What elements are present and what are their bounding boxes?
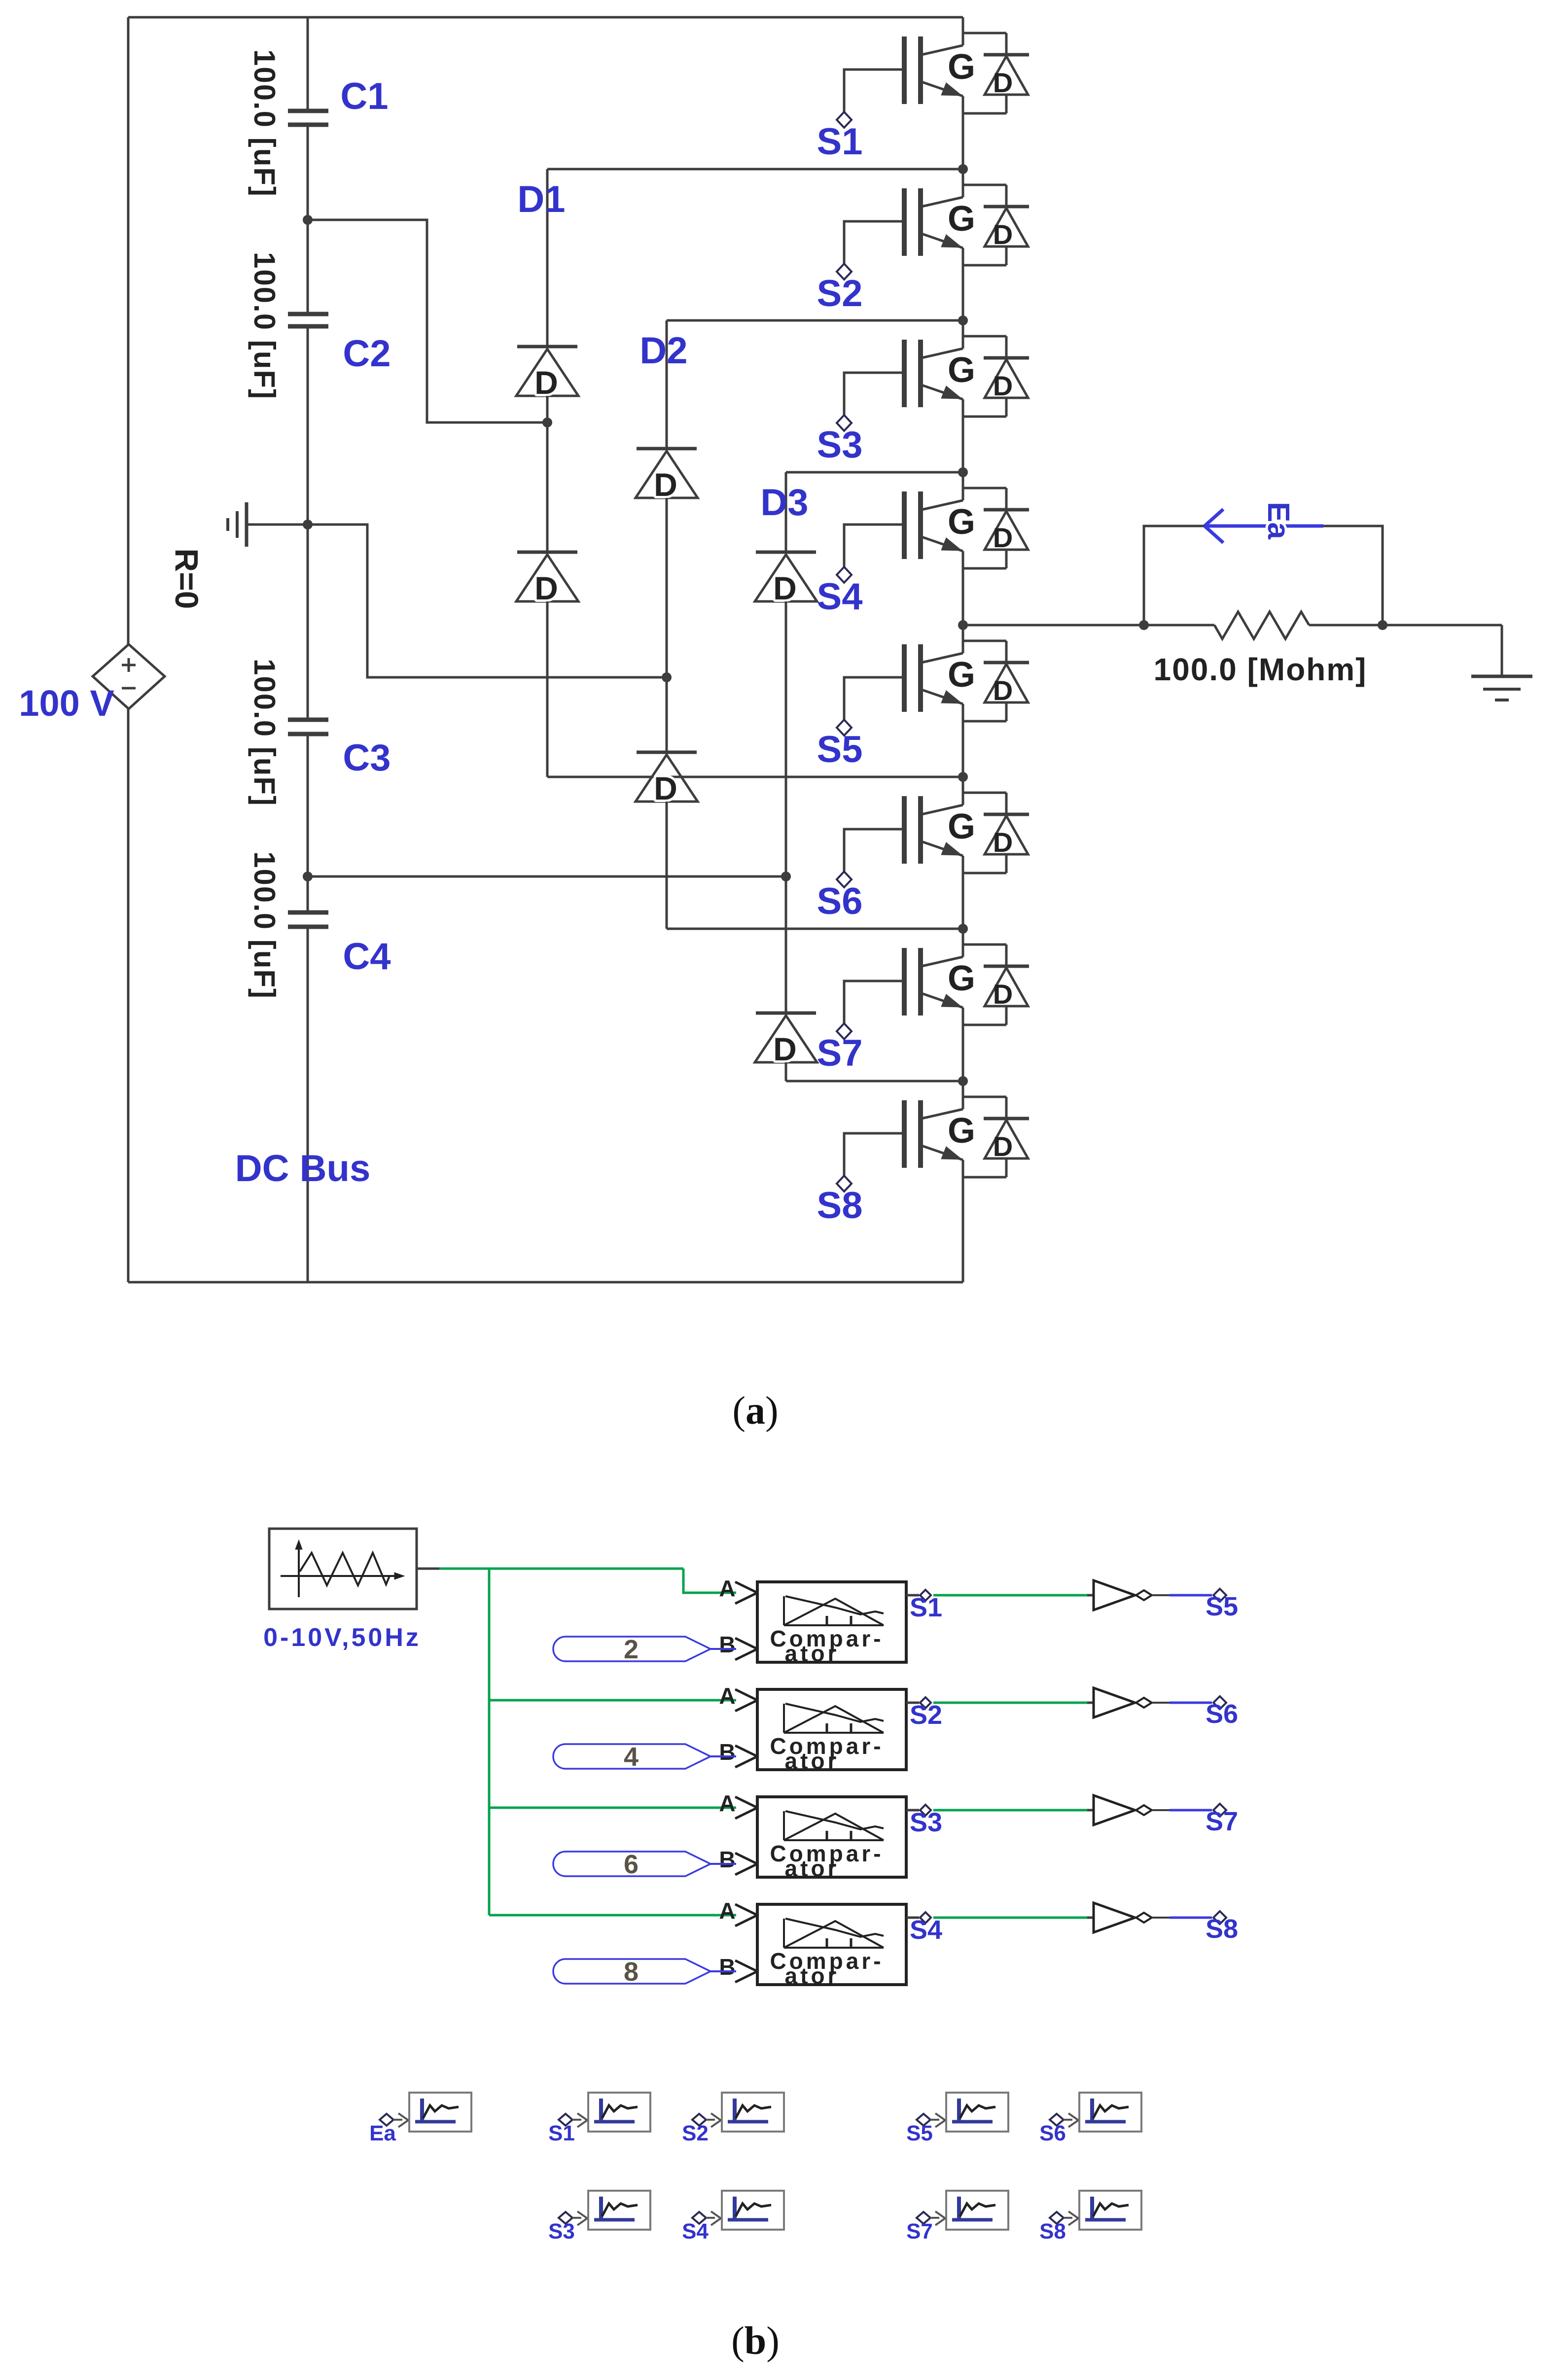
svg-text:S7: S7 bbox=[906, 2219, 933, 2243]
label DC Bus bbox=[235, 1148, 370, 1190]
label D1 bbox=[517, 178, 565, 220]
svg-text:D: D bbox=[993, 979, 1013, 1010]
scope Ea bbox=[369, 2093, 471, 2145]
wire D1 column bottom to S5-S6 node bbox=[547, 601, 963, 777]
svg-text:S5: S5 bbox=[817, 729, 863, 770]
svg-text:A: A bbox=[719, 1898, 735, 1924]
terminal S4 bbox=[817, 567, 863, 618]
wire bottom DC bus bbox=[128, 1281, 963, 1284]
node D2-neutral tap bbox=[662, 672, 672, 682]
input A comparator 4 bbox=[719, 1898, 757, 1926]
svg-text:G: G bbox=[948, 655, 975, 695]
wire D3 top to S3-S4 node bbox=[786, 472, 963, 552]
svg-text:B: B bbox=[719, 1632, 735, 1657]
clamp diode D1 lower bbox=[516, 552, 578, 606]
svg-text:S4: S4 bbox=[817, 576, 863, 618]
svg-text:S2: S2 bbox=[910, 1700, 942, 1730]
wire Ea measurement loop bbox=[1144, 526, 1383, 625]
node junction S4-S5 bbox=[958, 620, 968, 630]
IGBT S3 symbol bbox=[904, 340, 975, 407]
wire carrier green distribution bbox=[439, 1569, 736, 1915]
input B comparator 3 bbox=[719, 1847, 757, 1875]
wire gate S6 bbox=[844, 829, 904, 872]
wire gate S7 bbox=[844, 981, 904, 1024]
svg-text:100.0 [uF]: 100.0 [uF] bbox=[248, 659, 281, 806]
wire gate S8 bbox=[844, 1133, 904, 1176]
wire gate S3 bbox=[844, 373, 904, 416]
node neutral (ground) on bus bbox=[303, 520, 313, 529]
antiparallel diode of S7 bbox=[963, 945, 1029, 1025]
terminal S5 bbox=[817, 720, 863, 770]
svg-text:D2: D2 bbox=[639, 330, 687, 372]
output S4 of comparator 4 bbox=[906, 1912, 1094, 1945]
svg-text:D: D bbox=[993, 675, 1013, 706]
svg-text:2: 2 bbox=[624, 1635, 639, 1664]
scope S6 bbox=[1039, 2093, 1141, 2145]
svg-text:S1: S1 bbox=[817, 121, 863, 163]
svg-text:4: 4 bbox=[624, 1742, 639, 1772]
clamp diode D2 upper bbox=[636, 449, 698, 503]
node junction S7-S8 bbox=[958, 1076, 968, 1086]
svg-text:D: D bbox=[773, 570, 797, 606]
output S1 of comparator 1 bbox=[906, 1590, 1094, 1622]
constant 8 bbox=[553, 1957, 736, 1987]
wire D2 column bottom to S6-S7 node bbox=[667, 802, 963, 929]
svg-text:DC Bus: DC Bus bbox=[235, 1148, 370, 1190]
wire gate S5 bbox=[844, 677, 904, 720]
constant 4 bbox=[553, 1742, 736, 1772]
svg-text:100 V: 100 V bbox=[19, 683, 114, 724]
triangle wave generator 0-10V 50Hz bbox=[269, 1529, 439, 1609]
label 0-10V,50Hz bbox=[263, 1623, 421, 1652]
wire D3 column mid bbox=[785, 601, 787, 1013]
wire gate S2 bbox=[844, 221, 904, 264]
IGBT S7 collector-emitter line bbox=[922, 929, 963, 1081]
svg-text:A: A bbox=[719, 1790, 735, 1816]
terminal S1 bbox=[817, 112, 863, 163]
svg-text:D: D bbox=[654, 466, 677, 503]
input B comparator 4 bbox=[719, 1954, 757, 1982]
constant 2 bbox=[553, 1635, 736, 1664]
capacitor C4 bbox=[248, 851, 391, 999]
svg-text:S3: S3 bbox=[817, 424, 863, 466]
ground load bbox=[1471, 625, 1532, 700]
svg-text:8: 8 bbox=[624, 1957, 639, 1987]
IGBT S4 collector-emitter line bbox=[922, 472, 963, 625]
ground neutral bbox=[228, 502, 308, 547]
svg-text:C1: C1 bbox=[340, 75, 388, 117]
IGBT S8 collector-emitter line bbox=[922, 1081, 963, 1282]
wire D2 column mid bbox=[666, 498, 668, 752]
scope S1 bbox=[548, 2093, 650, 2145]
comparator 4 bbox=[757, 1904, 906, 1989]
svg-text:S6: S6 bbox=[817, 880, 863, 922]
svg-text:ator: ator bbox=[785, 1641, 840, 1666]
clamp diode D2 lower bbox=[636, 752, 698, 806]
svg-text:G: G bbox=[948, 959, 975, 998]
clamp diode D3 lower bbox=[755, 1013, 817, 1067]
inverter to S7 bbox=[1094, 1795, 1238, 1836]
svg-text:S4: S4 bbox=[682, 2219, 709, 2243]
svg-text:A: A bbox=[719, 1575, 735, 1601]
wire C1-C2 midpoint to D1 column bbox=[308, 220, 547, 422]
terminal S6 bbox=[817, 872, 863, 922]
input A comparator 2 bbox=[719, 1683, 757, 1711]
svg-text:S5: S5 bbox=[1206, 1592, 1238, 1621]
wire capacitor bus bbox=[307, 17, 309, 1282]
svg-text:S1: S1 bbox=[548, 2121, 575, 2145]
node D3-C3C4 tap bbox=[781, 872, 791, 881]
IGBT S8 symbol bbox=[904, 1100, 975, 1168]
svg-text:100.0 [uF]: 100.0 [uF] bbox=[248, 49, 281, 197]
input A comparator 1 bbox=[719, 1575, 757, 1604]
svg-text:G: G bbox=[948, 47, 975, 87]
current label Ea with arrow bbox=[1205, 502, 1323, 543]
label D2 bbox=[639, 330, 687, 372]
node junction S2-S3 bbox=[958, 315, 968, 325]
svg-text:D: D bbox=[534, 570, 558, 606]
node load right bbox=[1378, 620, 1387, 630]
scope S4 bbox=[682, 2191, 784, 2243]
wire left border bbox=[127, 17, 130, 1282]
comparator 3 bbox=[757, 1797, 906, 1881]
svg-text:D: D bbox=[654, 770, 677, 806]
IGBT S5 symbol bbox=[904, 644, 975, 712]
IGBT S4 symbol bbox=[904, 491, 975, 559]
comparator 1 bbox=[757, 1582, 906, 1666]
svg-text:100.0 [uF]: 100.0 [uF] bbox=[248, 851, 281, 999]
inverter to S8 bbox=[1094, 1903, 1238, 1944]
input B comparator 1 bbox=[719, 1632, 757, 1660]
label 100.0 [Mohm] bbox=[1154, 652, 1367, 687]
svg-text:D1: D1 bbox=[517, 178, 565, 220]
svg-text:G: G bbox=[948, 807, 975, 846]
svg-text:R=0: R=0 bbox=[169, 549, 205, 609]
clamp diode D3 upper bbox=[755, 552, 817, 606]
scope S5 bbox=[906, 2093, 1008, 2145]
svg-text:ator: ator bbox=[785, 1963, 840, 1989]
svg-text:S2: S2 bbox=[817, 273, 863, 315]
svg-text:S1: S1 bbox=[910, 1593, 942, 1622]
svg-text:D: D bbox=[534, 364, 558, 401]
input A comparator 3 bbox=[719, 1790, 757, 1819]
scope S8 bbox=[1039, 2191, 1141, 2243]
resistor R load bbox=[1214, 612, 1309, 639]
wire D1 column mid bbox=[546, 396, 549, 552]
svg-text:D: D bbox=[993, 67, 1013, 98]
svg-text:D: D bbox=[993, 370, 1013, 401]
inverter to S5 bbox=[1094, 1580, 1238, 1621]
terminal S3 bbox=[817, 415, 863, 466]
svg-text:S5: S5 bbox=[906, 2121, 933, 2145]
comparator 2 bbox=[757, 1689, 906, 1774]
wire D3 column bottom to S7-S8 node bbox=[786, 1062, 963, 1081]
node junction S1-S2 bbox=[958, 164, 968, 174]
svg-text:G: G bbox=[948, 199, 975, 239]
node C1-C2 midpoint bbox=[303, 215, 313, 225]
wire D2 top to S2-S3 node bbox=[667, 320, 963, 449]
IGBT S2 collector-emitter line bbox=[922, 169, 963, 320]
node C3-C4 midpoint bbox=[303, 872, 313, 881]
terminal S8 bbox=[817, 1176, 863, 1226]
label 100 V bbox=[19, 683, 114, 724]
wire C3-C4 midpoint to D3 column bbox=[308, 875, 786, 878]
wire top DC bus bbox=[128, 16, 963, 19]
scope S2 bbox=[682, 2093, 784, 2145]
svg-text:S6: S6 bbox=[1039, 2121, 1066, 2145]
svg-text:C3: C3 bbox=[343, 737, 391, 779]
svg-text:S8: S8 bbox=[817, 1185, 863, 1226]
IGBT S7 symbol bbox=[904, 948, 975, 1015]
output S3 of comparator 3 bbox=[906, 1805, 1094, 1837]
node junction S6-S7 bbox=[958, 924, 968, 934]
wire gate S4 bbox=[844, 525, 904, 567]
node D1-C1C2 tap bbox=[542, 418, 552, 427]
input B comparator 2 bbox=[719, 1739, 757, 1767]
svg-text:D: D bbox=[993, 219, 1013, 250]
output S2 of comparator 2 bbox=[906, 1697, 1094, 1730]
terminal S7 bbox=[817, 1023, 863, 1074]
terminal S2 bbox=[817, 264, 863, 315]
svg-text:C4: C4 bbox=[343, 936, 391, 978]
scope S3 bbox=[548, 2191, 650, 2243]
svg-text:D: D bbox=[993, 522, 1013, 553]
svg-text:Ea: Ea bbox=[369, 2121, 396, 2145]
svg-text:D: D bbox=[993, 1131, 1013, 1162]
antiparallel diode of S6 bbox=[963, 793, 1029, 873]
svg-text:S8: S8 bbox=[1206, 1914, 1238, 1944]
node load left bbox=[1139, 620, 1149, 630]
node junction S3-S4 bbox=[958, 467, 968, 477]
IGBT S6 collector-emitter line bbox=[922, 777, 963, 929]
label R=0 bbox=[169, 549, 205, 609]
svg-text:S6: S6 bbox=[1206, 1699, 1238, 1729]
IGBT S2 symbol bbox=[904, 188, 975, 256]
svg-text:D3: D3 bbox=[760, 482, 808, 524]
svg-text:B: B bbox=[719, 1847, 735, 1872]
antiparallel diode of S8 bbox=[963, 1097, 1029, 1177]
IGBT S1 symbol bbox=[904, 36, 975, 104]
IGBT S1 collector-emitter line bbox=[922, 17, 963, 169]
svg-text:S7: S7 bbox=[1206, 1807, 1238, 1836]
voltage source E 100V bbox=[93, 644, 165, 709]
constant 6 bbox=[553, 1850, 736, 1879]
svg-text:B: B bbox=[719, 1954, 735, 1980]
scope S7 bbox=[906, 2191, 1008, 2243]
antiparallel diode of S1 bbox=[963, 33, 1029, 113]
svg-text:S8: S8 bbox=[1039, 2219, 1066, 2243]
svg-text:ator: ator bbox=[785, 1748, 840, 1774]
svg-text:C2: C2 bbox=[343, 333, 391, 375]
capacitor C3 bbox=[248, 659, 391, 806]
svg-text:D: D bbox=[993, 827, 1013, 858]
svg-text:S7: S7 bbox=[817, 1032, 863, 1074]
svg-text:0-10V,50Hz: 0-10V,50Hz bbox=[263, 1623, 421, 1652]
svg-text:D: D bbox=[773, 1031, 797, 1067]
svg-text:S4: S4 bbox=[910, 1915, 942, 1945]
antiparallel diode of S2 bbox=[963, 185, 1029, 265]
antiparallel diode of S4 bbox=[963, 488, 1029, 568]
svg-text:ator: ator bbox=[785, 1855, 840, 1881]
svg-text:Ea: Ea bbox=[1261, 502, 1295, 539]
inverter to S6 bbox=[1094, 1688, 1238, 1729]
capacitor C2 bbox=[248, 252, 391, 400]
IGBT S3 collector-emitter line bbox=[922, 320, 963, 472]
svg-text:(b): (b) bbox=[731, 2319, 780, 2363]
wire gate S1 bbox=[844, 70, 904, 112]
node junction S5-S6 bbox=[958, 772, 968, 782]
svg-text:G: G bbox=[948, 1111, 975, 1151]
svg-text:(a): (a) bbox=[732, 1389, 778, 1433]
wire neutral to D2 column bbox=[308, 525, 667, 677]
label D3 bbox=[760, 482, 808, 524]
IGBT S6 symbol bbox=[904, 796, 975, 864]
capacitor C1 bbox=[248, 49, 389, 197]
IGBT S5 collector-emitter line bbox=[922, 625, 963, 777]
svg-text:S3: S3 bbox=[910, 1808, 942, 1837]
svg-text:B: B bbox=[719, 1739, 735, 1765]
wire D1 top to S1-S2 node bbox=[547, 169, 963, 347]
svg-text:A: A bbox=[719, 1683, 735, 1709]
svg-text:G: G bbox=[948, 502, 975, 542]
svg-text:G: G bbox=[948, 350, 975, 390]
antiparallel diode of S5 bbox=[963, 641, 1029, 721]
svg-text:S3: S3 bbox=[548, 2219, 575, 2243]
svg-text:S2: S2 bbox=[682, 2121, 709, 2145]
antiparallel diode of S3 bbox=[963, 336, 1029, 417]
svg-text:6: 6 bbox=[624, 1850, 639, 1879]
wire output node to load bbox=[963, 624, 1502, 627]
clamp diode D1 upper bbox=[516, 347, 578, 401]
svg-text:100.0 [uF]: 100.0 [uF] bbox=[248, 252, 281, 400]
svg-text:100.0 [Mohm]: 100.0 [Mohm] bbox=[1154, 652, 1367, 687]
